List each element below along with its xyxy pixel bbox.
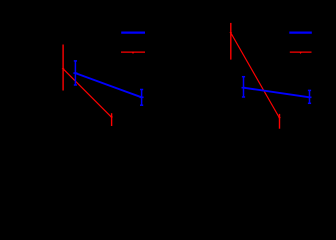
right panel: red errorbar 1 vertical <box>230 23 232 60</box>
right panel: blue errorbar 1 bottom cap <box>242 96 245 98</box>
left panel: red errorbar 1 vertical <box>62 45 64 91</box>
left panel: red line segment <box>63 69 112 118</box>
right panel: blue errorbar 2 top cap <box>308 89 311 91</box>
left panel: red errorbar 2 vertical <box>111 113 113 126</box>
right panel: blue errorbar 1 top cap <box>242 76 245 78</box>
right panel: blue line segment <box>244 88 310 98</box>
left legend: red marker v <box>132 52 135 54</box>
right legend: red marker v <box>299 52 302 54</box>
right legend: blue line <box>289 31 312 33</box>
right legend: red line <box>290 51 312 53</box>
left panel: red marker v point 1 <box>62 68 65 70</box>
left legend: blue line <box>121 31 145 33</box>
left panel: blue marker point 1 <box>73 72 77 74</box>
left panel: blue errorbar 2 bottom cap <box>140 104 143 106</box>
right panel: red errorbar 2 vertical <box>279 114 281 129</box>
left panel: blue errorbar 2 top cap <box>140 89 143 91</box>
right panel: red marker v point 2 <box>278 117 281 119</box>
right panel: blue marker point 1 <box>242 87 246 89</box>
left panel: blue errorbar 1 top cap <box>74 60 77 62</box>
left panel: red marker v point 2 <box>110 117 113 119</box>
left panel: blue errorbar 1 bottom cap <box>74 84 77 86</box>
right panel: red line segment <box>231 33 280 118</box>
right panel: blue marker point 2 <box>308 96 312 98</box>
left panel: blue marker point 2 <box>140 96 144 98</box>
left legend: red line <box>121 51 145 53</box>
right panel: blue errorbar 2 vertical <box>309 90 311 103</box>
right panel: blue errorbar 1 vertical <box>243 77 245 98</box>
right panel: red marker v point 1 <box>229 32 232 34</box>
left panel: blue errorbar 1 vertical <box>74 61 76 85</box>
left panel: blue line segment <box>75 73 141 97</box>
right panel: blue errorbar 2 bottom cap <box>308 102 311 104</box>
left panel: blue errorbar 2 vertical <box>141 89 143 105</box>
